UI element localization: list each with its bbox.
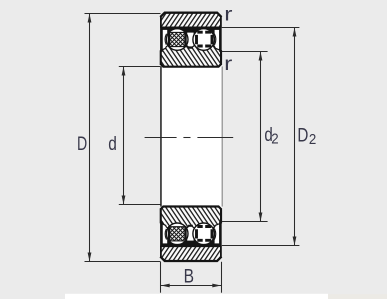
seal lip bar right top (219, 27, 222, 52)
arrow d down (122, 196, 126, 205)
groove side arcs top (165, 34, 216, 45)
inner ring bottom (hatched, scalloped raceway) (160, 206, 221, 230)
white gap mid (187, 33, 193, 47)
svg-text:D: D (297, 125, 308, 147)
ext line d2 bottom (222, 221, 268, 223)
arrow D2 up (293, 28, 297, 37)
ext line d2 top (222, 51, 268, 53)
dim line D (89, 14, 91, 262)
svg-text:D: D (77, 133, 87, 155)
ball left bottom (166, 223, 188, 245)
dim line D2 (294, 28, 296, 246)
arrow B right (212, 284, 221, 288)
cage (dashed) in right ball bottom (197, 227, 213, 241)
groove side arcs bottom (165, 229, 216, 240)
white gap left of ball bottom (163, 224, 168, 243)
arrow D2 down (293, 237, 297, 246)
ext line D2 top (222, 27, 300, 29)
cage (dashed) in right ball top (197, 32, 213, 46)
ball zone shoulders bottom (160, 222, 221, 246)
white gap left of ball (163, 30, 168, 49)
dim line d (123, 67, 125, 205)
ball right bottom (193, 223, 215, 245)
wire bore left edge (160, 66, 162, 206)
arrow d2 down (259, 213, 263, 222)
outer ring top (hatched) (160, 13, 221, 28)
arrow d2 up (259, 52, 263, 61)
seal lip bar right bottom (219, 222, 222, 247)
inner ring bore line top (160, 64, 221, 67)
white page strip bottom (65, 294, 328, 299)
svg-text:r: r (224, 4, 233, 26)
dim line d2 (260, 52, 262, 222)
arrow d up (122, 67, 126, 76)
svg-text:2: 2 (271, 132, 278, 148)
arrowheads (88, 14, 297, 288)
inner ring bore line bottom (160, 207, 221, 210)
seal lip bar left top (160, 27, 163, 52)
dim line B (161, 285, 222, 287)
ext line D top (85, 13, 161, 15)
ext line D bottom (85, 261, 161, 263)
seal lip bar left bottom (160, 222, 163, 247)
svg-text:r: r (224, 53, 233, 75)
svg-text:2: 2 (309, 132, 316, 148)
ext line d bottom (119, 204, 161, 206)
white gap right of ball (215, 30, 220, 49)
ball right top (193, 29, 215, 51)
svg-text:d: d (108, 133, 117, 155)
ext line B left (160, 262, 162, 293)
svg-text:B: B (184, 266, 194, 288)
ball zone shoulders top (160, 27, 221, 51)
arrow D down (88, 253, 92, 262)
ext line B right (221, 262, 223, 293)
inner ring top (hatched, scalloped raceway) (160, 44, 221, 67)
wire bore right edge (222, 66, 223, 206)
outer ring bottom (hatched) (160, 246, 221, 261)
ball left top (166, 29, 188, 51)
ext line D2 bottom (222, 245, 300, 247)
arrow D up (88, 14, 92, 23)
white gap right of ball bottom (215, 224, 220, 243)
centerline axis (145, 137, 234, 139)
arrow B left (161, 284, 170, 288)
ext line d top (119, 66, 161, 68)
seal block (crosshatched) in left ball bottom (168, 227, 187, 241)
seal block (crosshatched) in left ball top (168, 32, 187, 46)
white gap mid bottom (187, 227, 193, 241)
bore white strip between sections (160, 60, 222, 210)
